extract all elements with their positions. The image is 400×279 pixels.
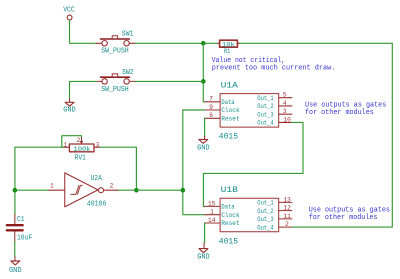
svg-text:Data: Data [221,204,234,212]
switch SW1 [96,31,135,56]
svg-text:U1B: U1B [221,186,239,195]
note text: value not critical [212,57,336,73]
svg-text:11: 11 [283,213,291,220]
svg-text:4: 4 [283,100,287,107]
svg-text:RV1: RV1 [75,154,86,162]
svg-text:Out_1: Out_1 [257,200,273,208]
IC U1A shift register [205,82,292,142]
RV1 pin 1 [63,146,70,148]
svg-text:Out_3: Out_3 [257,111,273,119]
svg-text:1: 1 [210,209,214,216]
svg-text:GND: GND [63,107,75,115]
note text: use outputs as gates (lower) [309,207,390,223]
svg-text:Out_2: Out_2 [257,103,273,111]
U1A pin 9 Clock [205,109,221,111]
svg-text:Out_1: Out_1 [257,95,273,103]
svg-text:3: 3 [96,142,100,149]
IC U1B shift register [205,186,292,246]
svg-text:U1A: U1A [221,82,239,91]
svg-text:3: 3 [283,108,287,115]
svg-text:GND: GND [9,267,22,275]
U1B pin 14 Reset [205,222,221,224]
U2A pin 2 [104,189,118,191]
junction SW2 node [201,79,206,84]
wire U1B reset to ground [204,223,206,243]
hysteresis symbol [71,185,79,194]
power flag VCC [63,6,75,20]
wire C1 to ground [14,242,16,257]
U1A pin 3 Out_3 [279,113,292,115]
svg-text:100k: 100k [73,146,90,153]
U1A pin 6 Reset [205,117,221,119]
ground GND below U1A [197,136,210,153]
wire U1A reset to ground [204,118,206,136]
svg-text:2: 2 [110,183,114,190]
U1A pin 5 Out_1 [279,97,292,99]
junction left rail / inverter input [13,188,18,193]
resistor R1 [203,40,240,55]
svg-text:prevent too much current draw.: prevent too much current draw. [212,65,336,73]
wire inverter input [15,189,49,191]
svg-text:10: 10 [283,116,291,123]
U1B pin 1 Clock [205,214,221,216]
U1B pin 13 Out_1 [279,201,292,203]
junction clock rail / oscillator output [181,188,186,193]
svg-text:SW_PUSH: SW_PUSH [101,48,129,56]
cascade wire U1A Out_4 to U1B Data [203,122,303,206]
wire RV1 pin3 down to oscillator output [100,147,136,190]
ground GND below C1 [9,257,22,275]
wire SW2 left to ground [70,81,97,98]
junction RV1 leg / oscillator output [134,188,139,193]
svg-text:Out_4: Out_4 [257,224,273,232]
svg-text:SW2: SW2 [122,69,134,77]
svg-text:for other modules: for other modules [309,214,378,222]
svg-text:VCC: VCC [63,6,75,14]
svg-text:GND: GND [197,254,210,262]
svg-text:GND: GND [197,145,210,153]
svg-text:14: 14 [208,217,216,224]
svg-text:4015: 4015 [219,133,238,142]
svg-text:SW_PUSH: SW_PUSH [101,86,129,94]
svg-text:Data: Data [221,99,234,107]
wire SW2 right to node A [135,80,203,82]
junction node A [201,41,206,46]
svg-text:2: 2 [77,137,81,144]
svg-text:Reset: Reset [221,220,239,228]
svg-text:7: 7 [209,96,213,103]
svg-text:4015: 4015 [219,237,238,246]
U1A pin 7 Data [205,101,221,103]
ground GND below SW2 [63,98,75,115]
wire left rail to RV1 pin1 [15,147,63,214]
svg-text:for other modules: for other modules [305,109,374,117]
potentiometer RV1 [63,137,100,163]
clock rail wire [183,110,205,215]
svg-text:R1: R1 [224,48,230,55]
svg-text:40106: 40106 [87,201,107,209]
RV1 pin 2 wiper arrow [81,137,83,142]
wire inverter output to clock rail [118,189,183,191]
svg-text:1: 1 [50,183,54,190]
svg-text:2: 2 [285,221,289,228]
wire VCC to SW1 [70,20,97,43]
svg-text:1: 1 [64,142,68,149]
U1B pin 12 Out_2 [279,210,292,212]
svg-text:13: 13 [283,196,291,203]
U1B pin 11 Out_3 [279,218,292,220]
svg-text:6: 6 [209,112,213,119]
wire RV1 wiper to pin1 side [62,136,82,148]
capacitor C1 [7,214,32,242]
svg-text:Out_3: Out_3 [257,216,273,224]
U2A pin 1 [49,189,65,191]
svg-text:SW1: SW1 [122,31,134,39]
svg-text:Clock: Clock [221,212,239,220]
svg-text:Out_4: Out_4 [257,120,273,128]
svg-text:Out_2: Out_2 [257,208,273,216]
svg-text:Clock: Clock [221,107,239,115]
svg-text:Reset: Reset [221,116,239,124]
svg-text:9: 9 [209,104,213,111]
U1A pin 10 Out_4 [279,121,292,123]
svg-text:C1: C1 [17,216,25,224]
note text: use outputs as gates (upper) [305,102,386,118]
svg-text:Value not critical,: Value not critical, [212,57,285,65]
svg-text:5: 5 [283,92,287,99]
U1B pin 15 Data [205,205,221,207]
U1B pin 2 Out_4 [279,226,292,228]
svg-text:12: 12 [283,205,291,212]
inverter U2A 40106 [49,173,118,209]
wire node A down to U1A Data [203,43,204,102]
ground GND below U1B [197,243,210,262]
svg-text:10uF: 10uF [17,235,32,243]
wire R1 to right feedback rail [240,43,392,227]
wire SW1 to node A [135,42,203,44]
U1A pin 4 Out_2 [279,105,292,107]
svg-text:U2A: U2A [91,175,103,183]
svg-text:15: 15 [208,200,216,207]
RV1 pin 3 [94,146,100,148]
switch SW2 [96,69,135,94]
